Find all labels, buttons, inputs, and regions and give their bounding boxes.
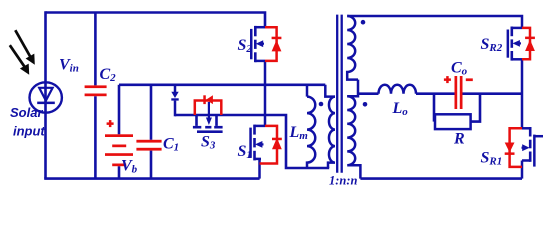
- diode D (blue) branch: [174, 85, 177, 117]
- node secondary top dot: [361, 20, 366, 25]
- mosfet SR2 body diode: [522, 28, 530, 59]
- svg-text:SR2: SR2: [481, 36, 503, 54]
- mosfet S2 arrow: [260, 43, 265, 45]
- svg-text:C2: C2: [100, 66, 117, 84]
- mosfet S3 channel bars: [193, 126, 223, 133]
- wire Lo to Co: [416, 92, 455, 95]
- capacitor C1 plates: [136, 140, 161, 151]
- svg-text:input: input: [13, 124, 45, 139]
- battery plus sign: [107, 120, 114, 127]
- wire S3 leads: [195, 115, 198, 126]
- wire bottom-left rail: [44, 177, 259, 180]
- mosfet S3 body-diode symbol: [203, 95, 206, 104]
- diode D triangle: [171, 92, 178, 98]
- mosfet S3 gate bar: [197, 130, 223, 133]
- battery Vb plates: [105, 134, 133, 166]
- mosfet SR2: [507, 27, 513, 61]
- capacitor C2 plates: [85, 85, 107, 96]
- mosfet S1 arrow: [259, 143, 264, 145]
- transformer primary winding: [325, 85, 335, 168]
- capacitor C1 leads: [150, 85, 153, 179]
- solar cell cathode bar: [37, 102, 55, 105]
- mosfet SR1 arrow: [522, 147, 526, 149]
- wire Co to SR2 source: [462, 92, 522, 95]
- wire output bottom rail: [360, 177, 522, 180]
- inductor Lm: [307, 85, 315, 168]
- arrow light 2: [10, 45, 25, 67]
- mosfet S1 body diode: [260, 126, 278, 164]
- svg-text:Co: Co: [451, 60, 468, 78]
- solar cell PV: [30, 82, 62, 112]
- mosfet S1: [249, 125, 256, 161]
- wire output plus rail (center tap to Lo): [358, 92, 379, 95]
- capacitor C2 branch wires: [94, 13, 97, 179]
- svg-text:Vb: Vb: [121, 158, 138, 176]
- wire secondary top lead: [347, 16, 522, 28]
- node secondary bottom dot: [363, 102, 368, 107]
- capacitor Co plates: [455, 76, 463, 109]
- svg-text:1:n:n: 1:n:n: [329, 174, 358, 188]
- node middle wire (battery bus): [119, 84, 325, 87]
- resistor R: [434, 94, 480, 129]
- mosfet SR1 body diode: [510, 128, 522, 167]
- wire S3 output bus: [175, 115, 329, 168]
- mosfet S2: [250, 26, 257, 62]
- transformer core: [337, 15, 342, 173]
- mosfet S2 body diode: [265, 27, 277, 61]
- mosfet S3 body-diode path: [195, 101, 222, 116]
- wire left rail: [44, 11, 47, 178]
- transformer secondary bottom winding: [347, 80, 360, 179]
- node primary dot: [319, 102, 324, 107]
- mosfet S3 arrow: [208, 102, 210, 119]
- diode D cathode bar: [171, 98, 178, 100]
- svg-text:Vin: Vin: [59, 57, 79, 75]
- svg-text:Solar: Solar: [10, 105, 43, 120]
- inductor Lo: [379, 85, 417, 94]
- svg-text:SR1: SR1: [481, 150, 503, 168]
- wire top-left rail: [46, 13, 266, 27]
- battery Vb leads: [118, 85, 121, 179]
- svg-text:Lo: Lo: [392, 100, 409, 118]
- svg-text:R: R: [453, 131, 465, 148]
- capacitor Co plus/minus: [444, 76, 473, 83]
- mosfet SR1 (mirrored): [529, 127, 536, 167]
- mosfet SR2 arrow: [516, 42, 521, 44]
- transformer secondary top winding: [347, 16, 522, 80]
- arrow light 1: [10, 30, 35, 74]
- svg-text:Lm: Lm: [289, 124, 309, 142]
- svg-text:S3: S3: [201, 134, 216, 152]
- svg-text:C1: C1: [163, 136, 179, 154]
